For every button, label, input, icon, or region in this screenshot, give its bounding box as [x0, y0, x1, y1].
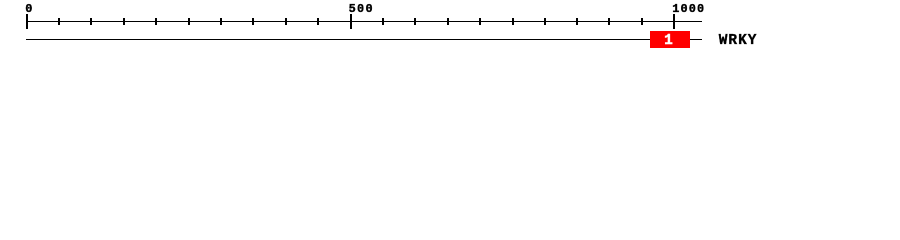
minor tick 950	[641, 18, 643, 25]
svg-text:1000: 1000	[672, 2, 704, 16]
motif box 1 (WRKY domain)	[650, 31, 690, 48]
minor tick 100	[90, 18, 92, 25]
major tick 1000	[673, 14, 675, 29]
ruler axis line	[26, 21, 702, 22]
minor tick 750	[512, 18, 514, 25]
sequence line	[26, 39, 702, 40]
minor tick 300	[220, 18, 222, 25]
minor tick 850	[576, 18, 578, 25]
minor tick 700	[479, 18, 481, 25]
minor tick 400	[285, 18, 287, 25]
major tick 0	[26, 14, 28, 29]
minor tick 450	[317, 18, 319, 25]
major tick 500	[350, 14, 352, 29]
minor tick 150	[123, 18, 125, 25]
minor tick 200	[155, 18, 157, 25]
minor tick 600	[414, 18, 416, 25]
minor tick 250	[188, 18, 190, 25]
minor tick 550	[382, 18, 384, 25]
svg-text:WRKY: WRKY	[719, 33, 757, 49]
svg-text:500: 500	[349, 2, 373, 16]
minor tick 650	[447, 18, 449, 25]
minor tick 800	[544, 18, 546, 25]
minor tick 50	[58, 18, 60, 25]
svg-text:0: 0	[25, 2, 32, 16]
svg-text:1: 1	[664, 33, 673, 49]
minor tick 900	[608, 18, 610, 25]
minor tick 350	[252, 18, 254, 25]
